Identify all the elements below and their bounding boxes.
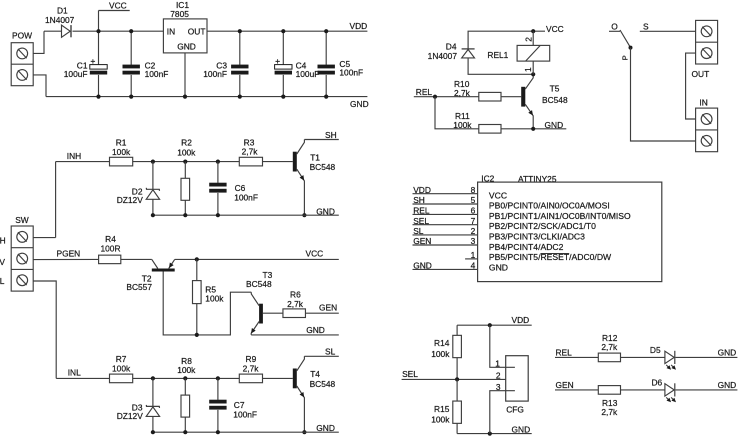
svg-text:GND: GND bbox=[718, 380, 737, 390]
svg-text:VDD: VDD bbox=[413, 185, 431, 195]
svg-text:PB0/PCINT0/AIN0/OC0A/MOSI: PB0/PCINT0/AIN0/OC0A/MOSI bbox=[489, 201, 610, 211]
svg-text:8: 8 bbox=[471, 185, 476, 195]
svg-text:OUT: OUT bbox=[188, 26, 206, 36]
svg-text:2: 2 bbox=[496, 371, 501, 381]
svg-text:SL: SL bbox=[413, 226, 424, 236]
svg-text:GEN: GEN bbox=[556, 380, 574, 390]
svg-text:GEN: GEN bbox=[319, 302, 337, 312]
svg-text:O: O bbox=[611, 21, 618, 31]
svg-text:SEL: SEL bbox=[402, 369, 418, 379]
svg-text:SH: SH bbox=[413, 195, 425, 205]
svg-text:100k: 100k bbox=[205, 293, 224, 303]
svg-text:D1: D1 bbox=[57, 5, 68, 15]
svg-text:100uF: 100uF bbox=[64, 69, 88, 79]
svg-text:+: + bbox=[275, 56, 280, 66]
svg-text:2,7k: 2,7k bbox=[601, 342, 618, 352]
svg-text:GND: GND bbox=[413, 261, 432, 271]
svg-text:VDD: VDD bbox=[512, 315, 530, 325]
svg-text:VCC: VCC bbox=[306, 249, 324, 259]
svg-text:100nF: 100nF bbox=[145, 69, 169, 79]
svg-text:SH: SH bbox=[325, 130, 337, 140]
svg-text:OUT: OUT bbox=[692, 69, 710, 79]
svg-text:2,7k: 2,7k bbox=[287, 299, 304, 309]
svg-text:100uF: 100uF bbox=[296, 69, 320, 79]
svg-text:SL: SL bbox=[325, 347, 336, 357]
svg-text:VCC: VCC bbox=[489, 190, 507, 200]
svg-text:REL: REL bbox=[556, 348, 573, 358]
svg-text:R4: R4 bbox=[105, 234, 116, 244]
svg-text:1N4007: 1N4007 bbox=[45, 15, 75, 25]
svg-text:GND: GND bbox=[177, 42, 196, 52]
svg-text:1: 1 bbox=[495, 358, 500, 368]
svg-text:100nF: 100nF bbox=[233, 410, 257, 420]
svg-text:SW: SW bbox=[15, 215, 29, 225]
svg-text:6: 6 bbox=[471, 206, 476, 216]
svg-text:L: L bbox=[0, 276, 5, 286]
svg-text:100k: 100k bbox=[112, 147, 131, 157]
svg-text:GND: GND bbox=[512, 424, 531, 434]
svg-text:DZ12V: DZ12V bbox=[117, 411, 143, 421]
svg-text:GND: GND bbox=[718, 348, 737, 358]
svg-text:1: 1 bbox=[471, 250, 476, 260]
svg-text:5: 5 bbox=[471, 195, 476, 205]
svg-text:T1: T1 bbox=[310, 152, 320, 162]
svg-text:S: S bbox=[643, 21, 649, 31]
svg-text:3: 3 bbox=[471, 236, 476, 246]
svg-text:R6: R6 bbox=[290, 290, 301, 300]
svg-text:R1: R1 bbox=[116, 137, 127, 147]
svg-text:2,7k: 2,7k bbox=[454, 88, 471, 98]
svg-text:R2: R2 bbox=[181, 138, 192, 148]
svg-text:REL: REL bbox=[413, 206, 430, 216]
svg-text:P: P bbox=[621, 55, 630, 60]
svg-text:VCC: VCC bbox=[109, 1, 127, 11]
svg-text:BC557: BC557 bbox=[126, 282, 152, 292]
svg-text:1: 1 bbox=[523, 67, 533, 72]
svg-text:R14: R14 bbox=[434, 338, 450, 348]
svg-text:100k: 100k bbox=[453, 120, 472, 130]
svg-text:GND: GND bbox=[316, 423, 335, 433]
svg-text:CFG: CFG bbox=[506, 404, 524, 414]
svg-text:GEN: GEN bbox=[413, 236, 431, 246]
svg-text:IN: IN bbox=[167, 26, 175, 36]
svg-text:INH: INH bbox=[67, 151, 81, 161]
svg-text:REL: REL bbox=[416, 87, 433, 97]
svg-text:PB1/PCINT1/AIN1/OC0B/INT0/MISO: PB1/PCINT1/AIN1/OC0B/INT0/MISO bbox=[489, 211, 631, 221]
svg-text:VDD: VDD bbox=[350, 21, 368, 31]
svg-text:100k: 100k bbox=[431, 415, 450, 425]
svg-text:100nF: 100nF bbox=[234, 192, 258, 202]
svg-text:D6: D6 bbox=[652, 378, 663, 388]
svg-text:PB2/PCINT2/SCK/ADC1/T0: PB2/PCINT2/SCK/ADC1/T0 bbox=[489, 221, 596, 231]
svg-text:T5: T5 bbox=[550, 84, 560, 94]
svg-text:BC548: BC548 bbox=[310, 162, 336, 172]
svg-text:BC548: BC548 bbox=[246, 279, 272, 289]
svg-text:R7: R7 bbox=[116, 354, 127, 364]
svg-text:3: 3 bbox=[496, 382, 501, 392]
svg-text:C6: C6 bbox=[235, 183, 246, 193]
svg-text:BC548: BC548 bbox=[542, 95, 568, 105]
svg-text:BC548: BC548 bbox=[310, 379, 336, 389]
svg-text:100k: 100k bbox=[177, 147, 196, 157]
svg-text:D5: D5 bbox=[650, 345, 661, 355]
svg-text:VCC: VCC bbox=[546, 24, 564, 34]
svg-text:100k: 100k bbox=[431, 349, 450, 359]
svg-text:SEL: SEL bbox=[413, 216, 429, 226]
svg-text:100nF: 100nF bbox=[203, 69, 227, 79]
svg-text:100R: 100R bbox=[100, 243, 120, 253]
svg-text:100nF: 100nF bbox=[339, 68, 363, 78]
svg-text:2: 2 bbox=[524, 37, 534, 42]
svg-text:C7: C7 bbox=[234, 400, 245, 410]
svg-text:1N4007: 1N4007 bbox=[428, 51, 458, 61]
svg-text:POW: POW bbox=[12, 31, 32, 41]
svg-text:V: V bbox=[0, 257, 5, 267]
svg-text:7805: 7805 bbox=[170, 9, 189, 19]
svg-text:100k: 100k bbox=[112, 364, 131, 374]
svg-text:T4: T4 bbox=[310, 369, 320, 379]
svg-text:4: 4 bbox=[471, 261, 476, 271]
svg-text:PB3/PCINT3/CLKI/ADC3: PB3/PCINT3/CLKI/ADC3 bbox=[489, 232, 585, 242]
svg-text:INL: INL bbox=[68, 368, 81, 378]
svg-text:GND: GND bbox=[350, 99, 369, 109]
svg-text:GND: GND bbox=[545, 120, 564, 130]
svg-text:2,7k: 2,7k bbox=[243, 363, 260, 373]
svg-text:REL1: REL1 bbox=[487, 50, 508, 60]
svg-text:R15: R15 bbox=[434, 404, 450, 414]
svg-text:PGEN: PGEN bbox=[57, 249, 81, 259]
svg-text:2: 2 bbox=[471, 226, 476, 236]
svg-text:2,7k: 2,7k bbox=[242, 147, 259, 157]
svg-text:GND: GND bbox=[306, 325, 325, 335]
svg-text:7: 7 bbox=[471, 216, 476, 226]
svg-text:+: + bbox=[90, 56, 95, 66]
svg-text:IN: IN bbox=[699, 98, 707, 108]
svg-text:100k: 100k bbox=[177, 365, 196, 375]
svg-text:H: H bbox=[0, 235, 6, 245]
svg-text:2,7k: 2,7k bbox=[601, 407, 618, 417]
svg-text:DZ12V: DZ12V bbox=[117, 195, 143, 205]
svg-text:PB4/PCINT4/ADC2: PB4/PCINT4/ADC2 bbox=[489, 242, 564, 252]
svg-text:GND: GND bbox=[316, 207, 335, 217]
svg-text:GND: GND bbox=[489, 262, 508, 272]
